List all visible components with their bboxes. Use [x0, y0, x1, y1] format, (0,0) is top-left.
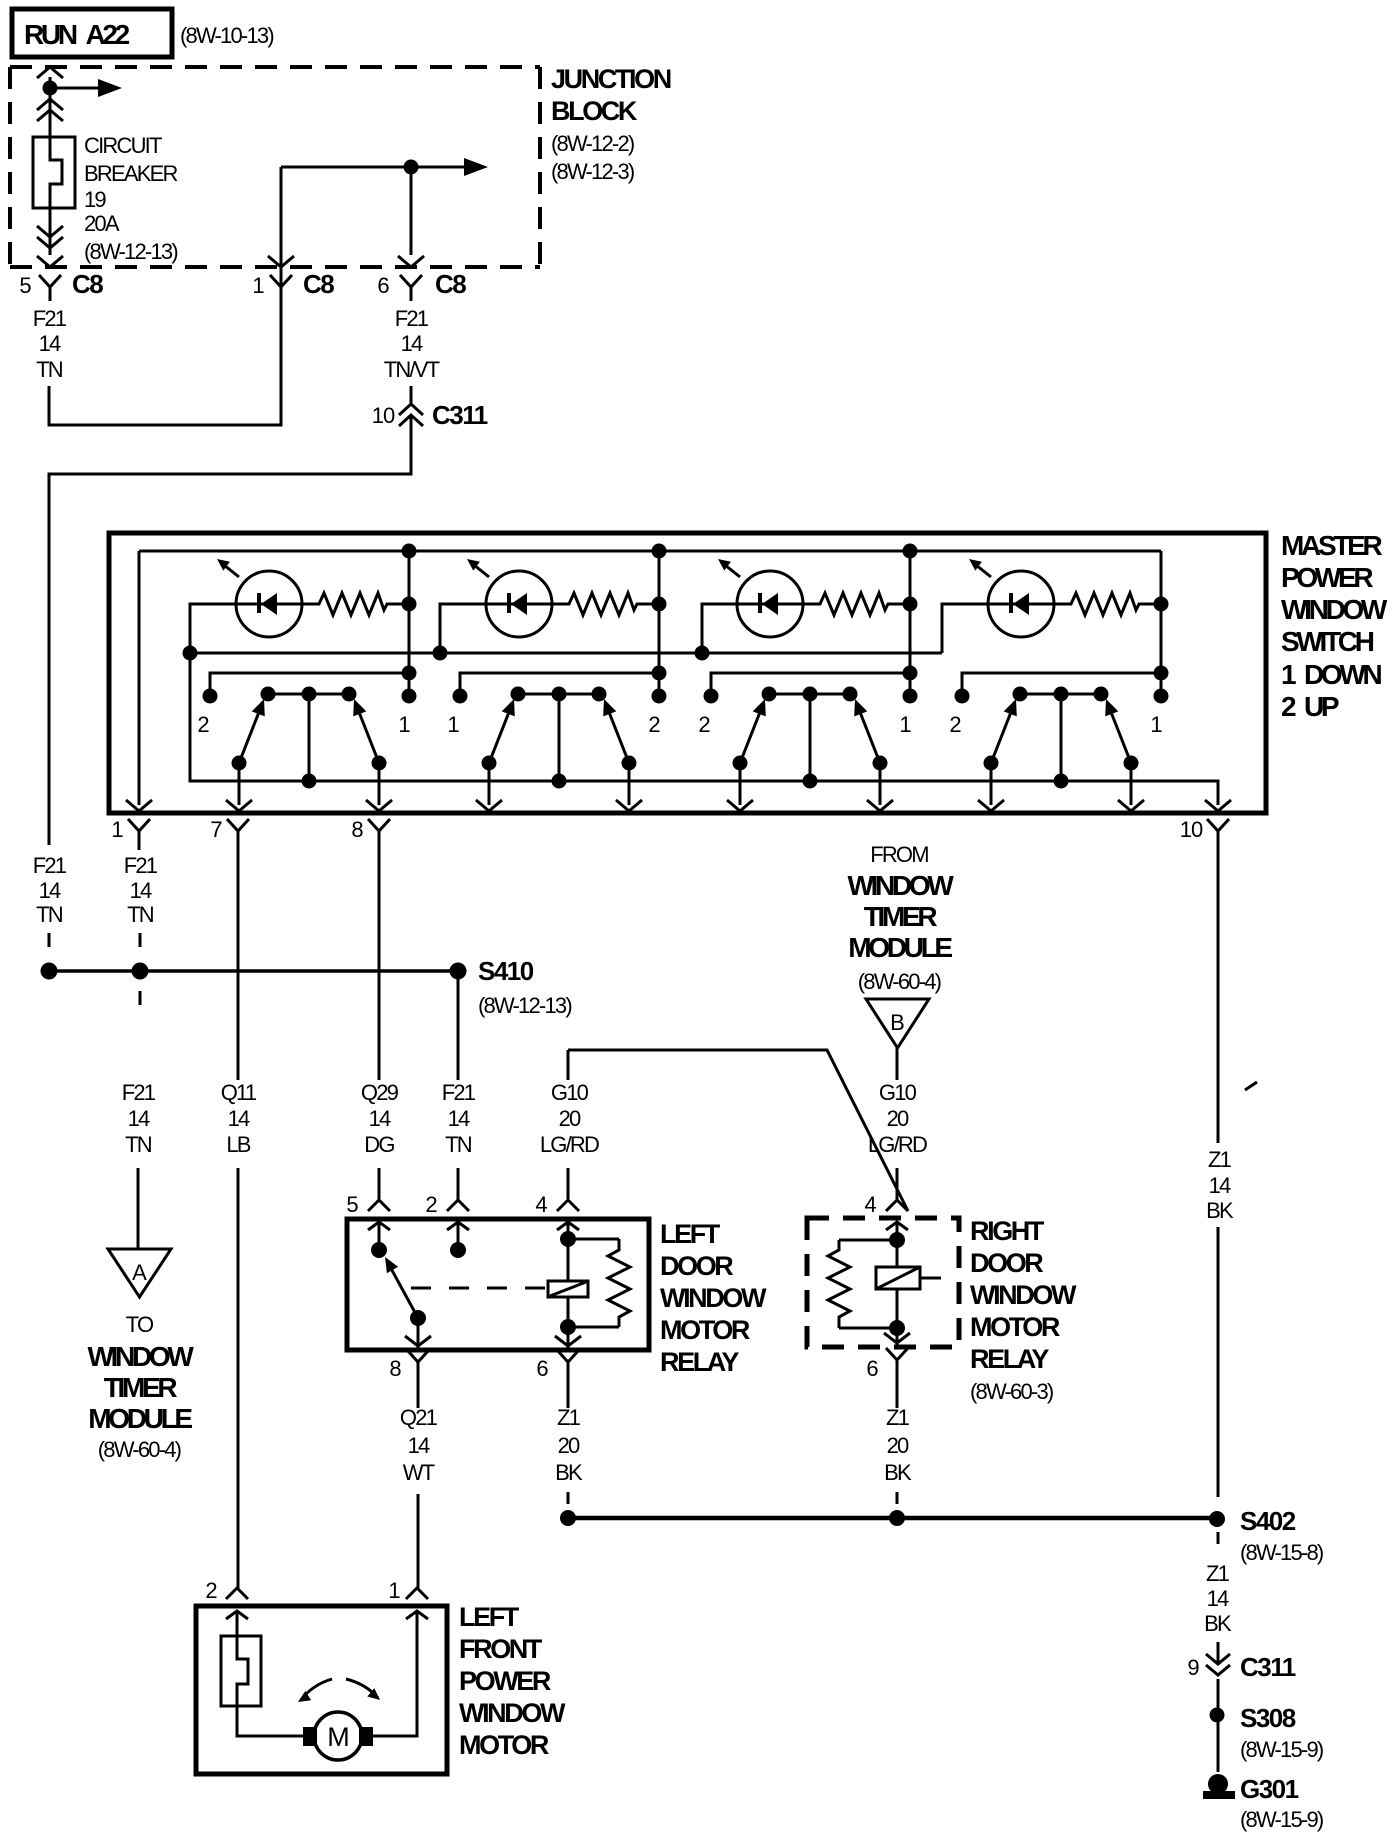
- svg-text:C8: C8: [435, 269, 466, 299]
- switch unit 3 lamp arrow: [725, 565, 740, 577]
- left front power window motor box: [196, 1606, 447, 1774]
- switch unit 2 right output wire: [628, 763, 631, 805]
- switch connector pin 8: [368, 819, 390, 831]
- svg-text:TO: TO: [126, 1312, 154, 1337]
- svg-text:20: 20: [558, 1433, 580, 1458]
- motor M: [314, 1712, 362, 1760]
- wire below circuit breaker: [49, 208, 52, 255]
- svg-text:BK: BK: [884, 1460, 912, 1485]
- svg-text:14: 14: [39, 878, 61, 903]
- svg-text:20: 20: [887, 1433, 909, 1458]
- svg-text:BK: BK: [1204, 1611, 1232, 1636]
- switch unit 2 lamp diode: [507, 593, 511, 613]
- svg-text:DOOR: DOOR: [970, 1248, 1043, 1278]
- switch supply bus: [139, 550, 1161, 553]
- svg-text:14: 14: [1209, 1173, 1231, 1198]
- left relay connector pin 5: [368, 1200, 390, 1211]
- svg-text:MODULE: MODULE: [848, 932, 952, 963]
- arrow up at junction block border: [37, 67, 63, 78]
- svg-text:8: 8: [351, 817, 363, 842]
- svg-text:(8W-60-4): (8W-60-4): [98, 1437, 181, 1462]
- dashed wire below middle splice: [139, 991, 142, 1005]
- switch unit 3 right output wire: [879, 763, 882, 805]
- wire down to C8 pin 6: [410, 167, 413, 255]
- feed arrow right: [50, 87, 102, 90]
- switch unit 2 rocker common wire: [558, 694, 561, 781]
- svg-text:C8: C8: [303, 269, 334, 299]
- svg-text:BREAKER: BREAKER: [84, 161, 177, 186]
- arrow down at border pin 6: [398, 256, 424, 267]
- switch unit 3 illumination bus node: [695, 646, 710, 661]
- ground G301: [1208, 1774, 1228, 1794]
- switch unit 1 stub node: [402, 666, 417, 681]
- switch illumination bus: [190, 652, 942, 655]
- junction block border: [10, 65, 540, 69]
- wire Z1 down to splice S402: [1217, 1227, 1220, 1497]
- svg-text:2: 2: [197, 712, 209, 737]
- motor connector pin 2: [226, 1588, 248, 1599]
- svg-text:(8W-12-3): (8W-12-3): [551, 159, 634, 184]
- svg-text:WINDOW: WINDOW: [660, 1283, 767, 1313]
- svg-text:JUNCTION: JUNCTION: [551, 64, 671, 94]
- wire Z1 to C311 pin 9: [1217, 1642, 1220, 1664]
- switch unit 2 illumination lamp: [486, 571, 552, 637]
- svg-text:F21: F21: [124, 853, 158, 878]
- wire G10 below connector B: [896, 1048, 899, 1080]
- svg-text:MOTOR: MOTOR: [660, 1315, 750, 1345]
- svg-text:RELAY: RELAY: [660, 1347, 739, 1377]
- circuit breaker 19 20A: [33, 137, 75, 208]
- svg-text:2: 2: [698, 712, 710, 737]
- dashed wire to splice S410 left: [48, 933, 51, 947]
- svg-text:RELAY: RELAY: [970, 1344, 1049, 1374]
- switch unit 1 right wiper: [357, 707, 379, 763]
- wire Q21 from relay pin 8: [417, 1376, 420, 1408]
- svg-text:BK: BK: [1206, 1198, 1234, 1223]
- switch unit 1 left output wire: [238, 763, 241, 805]
- switch unit 2 supply node: [652, 544, 667, 559]
- svg-text:(8W-15-9): (8W-15-9): [1240, 1807, 1323, 1832]
- svg-text:Q11: Q11: [221, 1080, 257, 1105]
- switch unit 2 resistor node: [652, 597, 667, 612]
- wire Z1 from right relay pin 6: [896, 1374, 899, 1408]
- svg-text:S402: S402: [1240, 1506, 1296, 1536]
- svg-text:6: 6: [536, 1356, 548, 1381]
- svg-text:WINDOW: WINDOW: [459, 1698, 566, 1728]
- splice S410: [450, 963, 467, 980]
- switch unit 4 lamp arrow: [976, 565, 991, 577]
- svg-text:14: 14: [369, 1106, 391, 1131]
- svg-text:FRONT: FRONT: [459, 1634, 543, 1664]
- svg-text:LB: LB: [226, 1132, 250, 1157]
- svg-text:DG: DG: [364, 1132, 394, 1157]
- svg-text:TN: TN: [36, 902, 63, 927]
- svg-text:F21: F21: [395, 306, 429, 331]
- switch unit 1 rocker contacts: [268, 693, 349, 696]
- fuse block label RUN A22: [12, 9, 172, 57]
- svg-text:WT: WT: [403, 1460, 435, 1485]
- wire Z1 from pin 10: [1217, 845, 1220, 1143]
- svg-text:7: 7: [210, 817, 222, 842]
- switch unit 3 rocker common wire: [809, 694, 812, 781]
- svg-text:F21: F21: [442, 1080, 476, 1105]
- svg-text:RUN A22: RUN A22: [24, 19, 130, 50]
- svg-text:POWER: POWER: [459, 1666, 551, 1696]
- switch unit 4 right contact: [1154, 689, 1169, 704]
- svg-text:6: 6: [866, 1356, 878, 1381]
- svg-text:F21: F21: [122, 1080, 156, 1105]
- svg-text:2 UP: 2 UP: [1281, 691, 1339, 722]
- svg-text:TN: TN: [445, 1132, 472, 1157]
- ground splice node right: [889, 1510, 905, 1526]
- connector C8 pin 6: [400, 275, 422, 287]
- dashed wire below S402: [1217, 1532, 1220, 1548]
- left relay pin 5 entry: [368, 1222, 390, 1230]
- right relay connector pin 6: [886, 1348, 908, 1360]
- junction block internal wire to pin 6: [281, 166, 411, 169]
- switch unit 1 lamp arrow: [224, 565, 239, 577]
- svg-text:Z1: Z1: [886, 1405, 910, 1430]
- ground splice bus wire: [568, 1516, 1217, 1521]
- wire Q29 from pin 8: [378, 845, 381, 1080]
- wire F21 to window timer module: [137, 1168, 140, 1249]
- switch unit 2 lamp return wire: [440, 604, 486, 653]
- svg-text:Z1: Z1: [1208, 1147, 1232, 1172]
- switch unit 3 left wiper: [740, 707, 762, 763]
- svg-text:G10: G10: [551, 1080, 589, 1105]
- right relay resistor: [839, 1239, 897, 1242]
- svg-text:14: 14: [128, 1106, 150, 1131]
- switch unit 1 left wiper: [239, 707, 261, 763]
- switch unit 3 lamp return wire: [702, 604, 737, 653]
- window timer module connector A: [108, 1249, 171, 1297]
- svg-text:TN: TN: [127, 902, 154, 927]
- svg-text:14: 14: [1207, 1586, 1229, 1611]
- left relay connector pin 4: [557, 1200, 579, 1211]
- right relay coil bottom node: [889, 1320, 905, 1336]
- svg-text:2: 2: [949, 712, 961, 737]
- wire TN/VT from C311 down-left: [49, 432, 411, 845]
- stray mark: [1245, 1082, 1257, 1090]
- svg-text:9: 9: [1187, 1655, 1199, 1680]
- switch unit 4 right wiper: [1109, 707, 1131, 763]
- switch unit 3 resistor: [803, 593, 910, 615]
- svg-text:LEFT: LEFT: [660, 1219, 721, 1249]
- svg-text:F21: F21: [33, 853, 67, 878]
- switch unit 4 lamp return wire: [942, 604, 988, 653]
- switch unit 2 lamp arrow: [474, 565, 489, 577]
- svg-text:(8W-12-2): (8W-12-2): [551, 131, 634, 156]
- connector chevrons below circuit breaker: [37, 226, 63, 237]
- left relay pin 8 exit: [417, 1318, 420, 1348]
- svg-text:5: 5: [346, 1192, 358, 1217]
- feed arrow right from pin 6 node: [411, 166, 468, 169]
- switch unit 4 resistor: [1054, 593, 1161, 615]
- svg-text:1: 1: [388, 1578, 400, 1603]
- svg-text:B: B: [890, 1010, 904, 1035]
- switch unit 4 left wiper: [991, 707, 1013, 763]
- svg-text:Z1: Z1: [1206, 1561, 1230, 1586]
- svg-text:C8: C8: [72, 269, 103, 299]
- switch unit 2 illumination bus node: [433, 646, 448, 661]
- right relay pin 6 exit: [896, 1328, 899, 1345]
- connector chevrons above circuit breaker: [37, 99, 63, 110]
- svg-text:(8W-12-13): (8W-12-13): [84, 239, 177, 264]
- svg-text:4: 4: [535, 1192, 547, 1217]
- svg-text:6: 6: [377, 273, 389, 298]
- svg-text:14: 14: [408, 1433, 430, 1458]
- svg-text:TN: TN: [36, 357, 63, 382]
- svg-text:RIGHT: RIGHT: [970, 1216, 1045, 1246]
- right door window motor relay box: [807, 1218, 959, 1347]
- window timer module connector B: [866, 999, 929, 1048]
- switch unit 3 left output wire: [739, 763, 742, 805]
- dashed wire to splice S410 middle: [139, 933, 142, 947]
- arrow down at junction block border pin 5: [37, 256, 63, 267]
- wire from C8 pin 5 to C8 pin 1: [49, 167, 281, 425]
- svg-text:DOOR: DOOR: [660, 1251, 733, 1281]
- switch unit 2 right contact: [652, 689, 667, 704]
- left relay switch arm: [388, 1263, 418, 1318]
- svg-text:1: 1: [1150, 712, 1162, 737]
- switch unit 3 supply node: [903, 544, 918, 559]
- switch unit 1 lamp diode: [257, 593, 261, 613]
- svg-text:TN: TN: [125, 1132, 152, 1157]
- connector C8 pin 5: [39, 275, 61, 287]
- right relay coil stub: [920, 1277, 941, 1280]
- svg-text:WINDOW: WINDOW: [87, 1341, 194, 1372]
- svg-text:C311: C311: [432, 400, 488, 430]
- switch unit 4 stub node: [1154, 666, 1169, 681]
- left relay pin 2 terminal: [450, 1242, 466, 1258]
- connector C311 pin 9: [1206, 1654, 1230, 1664]
- switch unit 3 illumination lamp: [737, 571, 803, 637]
- motor circuit breaker: [221, 1636, 261, 1706]
- switch unit 3 right wiper: [858, 707, 880, 763]
- motor pin 1 wire: [373, 1611, 417, 1736]
- svg-text:4: 4: [864, 1192, 876, 1217]
- svg-text:C311: C311: [1240, 1652, 1296, 1682]
- switch connector pin 10: [1207, 819, 1229, 831]
- svg-text:S308: S308: [1240, 1703, 1296, 1733]
- svg-text:LG/RD: LG/RD: [868, 1132, 927, 1157]
- switch unit 2 right wiper: [607, 707, 629, 763]
- switch unit 1 resistor node: [402, 597, 417, 612]
- svg-text:2: 2: [648, 712, 660, 737]
- motor rotation arrows: [301, 1679, 332, 1700]
- wire G10 20 LG/RD labels left: [567, 1050, 570, 1080]
- switch unit 2 stub node: [652, 666, 667, 681]
- switch unit 1 illumination lamp: [236, 571, 302, 637]
- switch unit 1 rocker common wire: [308, 694, 311, 781]
- svg-text:10: 10: [1180, 817, 1203, 842]
- switch unit 1 left contact: [203, 689, 218, 704]
- dashed wire to ground splice right: [896, 1492, 899, 1506]
- svg-text:1 DOWN: 1 DOWN: [1281, 659, 1382, 690]
- switch unit 2 resistor: [552, 593, 659, 615]
- node at breaker feed: [43, 81, 58, 96]
- switch unit 1 resistor: [302, 593, 409, 615]
- switch unit 3 lamp diode: [758, 593, 762, 613]
- svg-text:1: 1: [398, 712, 410, 737]
- switch unit 4 left output wire: [990, 763, 993, 805]
- svg-text:M: M: [327, 1722, 349, 1752]
- splice S308: [1210, 1708, 1225, 1723]
- svg-text:BLOCK: BLOCK: [551, 96, 638, 126]
- svg-text:S410: S410: [478, 956, 534, 986]
- left relay coil: [548, 1281, 588, 1297]
- svg-text:G10: G10: [879, 1080, 917, 1105]
- svg-text:2: 2: [425, 1192, 437, 1217]
- svg-text:WINDOW: WINDOW: [847, 870, 954, 901]
- wire Q11 down to motor: [237, 1168, 240, 1588]
- switch unit 1 supply node: [402, 544, 417, 559]
- svg-text:MOTOR: MOTOR: [970, 1312, 1060, 1342]
- left relay coil top node: [560, 1231, 576, 1247]
- left relay coil wires: [567, 1239, 570, 1281]
- left relay connector pin 8: [407, 1350, 429, 1362]
- splice S402: [1209, 1511, 1225, 1527]
- connector C8 pin 1: [270, 275, 292, 287]
- left relay coil bottom node: [560, 1319, 576, 1335]
- wire Q29 down to relay pin 5: [378, 1168, 381, 1200]
- switch connector pin 1: [128, 819, 150, 831]
- svg-text:Q29: Q29: [361, 1080, 399, 1105]
- svg-text:F21: F21: [33, 306, 67, 331]
- wire F21 below S410: [457, 979, 460, 1080]
- wire Q21 down to motor pin 1: [417, 1494, 420, 1588]
- wire Z1 to splice S308: [1217, 1702, 1220, 1708]
- left relay pin 4 entry: [557, 1222, 579, 1230]
- switch unit 4 rocker contacts: [1020, 693, 1101, 696]
- svg-text:20A: 20A: [84, 211, 120, 236]
- svg-text:MOTOR: MOTOR: [459, 1730, 549, 1760]
- left relay pin 6 exit: [567, 1327, 570, 1348]
- switch unit 1 right contact: [402, 689, 417, 704]
- switch unit 4 resistor node: [1154, 597, 1169, 612]
- svg-text:20: 20: [887, 1106, 909, 1131]
- switch unit 4 illumination lamp: [988, 571, 1054, 637]
- svg-text:1: 1: [899, 712, 911, 737]
- svg-text:LEFT: LEFT: [459, 1602, 520, 1632]
- left relay resistor: [568, 1238, 619, 1241]
- switch unit 2 rocker contacts: [518, 693, 599, 696]
- switch unit 1 lamp return wire: [190, 604, 236, 653]
- switch unit 2 contact stub: [460, 673, 659, 690]
- node at pin 6 feed: [404, 160, 419, 175]
- svg-text:LG/RD: LG/RD: [540, 1132, 599, 1157]
- motor right terminal: [359, 1727, 373, 1746]
- svg-text:TN/VT: TN/VT: [384, 357, 440, 382]
- splice node left: [41, 963, 58, 980]
- svg-text:(8W-15-8): (8W-15-8): [1240, 1540, 1323, 1565]
- right relay pin 4 entry: [886, 1222, 908, 1230]
- svg-text:POWER: POWER: [1281, 562, 1373, 593]
- illumination bus node: [183, 646, 198, 661]
- svg-text:1: 1: [111, 817, 123, 842]
- motor connector pin 1: [406, 1588, 428, 1599]
- switch unit 2 left wiper: [489, 707, 511, 763]
- splice node middle: [132, 963, 149, 980]
- switch unit 4 rocker common wire: [1060, 694, 1063, 781]
- svg-text:(8W-12-13): (8W-12-13): [478, 993, 571, 1018]
- ground splice node left: [560, 1510, 576, 1526]
- switch unit 1 right output wire: [378, 763, 381, 805]
- switch unit 3 stub node: [903, 666, 918, 681]
- svg-text:14: 14: [228, 1106, 250, 1131]
- left relay connector pin 6: [557, 1350, 579, 1362]
- svg-text:CIRCUIT: CIRCUIT: [84, 133, 162, 158]
- svg-text:14: 14: [448, 1106, 470, 1131]
- svg-text:14: 14: [130, 878, 152, 903]
- svg-text:A: A: [132, 1260, 147, 1285]
- svg-text:(8W-10-13): (8W-10-13): [180, 23, 273, 48]
- svg-text:TIMER: TIMER: [864, 901, 938, 932]
- switch unit 2 feed wire: [658, 551, 661, 696]
- wire Z1 to ground G301: [1217, 1722, 1220, 1772]
- switch unit 3 left contact: [704, 689, 719, 704]
- switch connector pin 7: [227, 819, 249, 831]
- svg-text:2: 2: [205, 1578, 217, 1603]
- switch ground bus to pin 10: [190, 653, 1218, 805]
- switch unit 4 feed wire: [1160, 551, 1163, 696]
- svg-text:(8W-60-4): (8W-60-4): [858, 969, 941, 994]
- switch unit 3 resistor node: [903, 597, 918, 612]
- motor left terminal: [303, 1727, 317, 1746]
- svg-text:SWITCH: SWITCH: [1281, 626, 1374, 657]
- svg-text:Q21: Q21: [400, 1405, 438, 1430]
- switch unit 3 rocker contacts: [769, 693, 850, 696]
- svg-text:8: 8: [389, 1356, 401, 1381]
- switch unit 4 contact stub: [962, 673, 1161, 690]
- wire G10 down to relay pin 4: [567, 1168, 570, 1200]
- svg-text:TIMER: TIMER: [104, 1372, 178, 1403]
- switch unit 1 feed wire: [408, 551, 411, 696]
- wire Q11 from pin 7: [237, 845, 240, 1080]
- switch feed wire pin 1: [138, 551, 141, 805]
- svg-text:(8W-60-3): (8W-60-3): [970, 1379, 1053, 1404]
- switch unit 4 left contact: [955, 689, 970, 704]
- svg-text:20: 20: [559, 1106, 581, 1131]
- svg-text:WINDOW: WINDOW: [970, 1280, 1077, 1310]
- switch unit 3 contact stub: [711, 673, 910, 690]
- right relay coil wires: [896, 1240, 899, 1267]
- switch unit 3 feed wire: [909, 551, 912, 696]
- svg-text:BK: BK: [555, 1460, 583, 1485]
- dashed wire to ground splice left: [567, 1492, 570, 1506]
- motor pin 2 entry: [226, 1611, 248, 1619]
- svg-text:19: 19: [84, 187, 106, 212]
- switch unit 1 contact stub: [210, 673, 409, 690]
- wire F21 down to relay pin 2: [457, 1168, 460, 1200]
- svg-text:14: 14: [39, 331, 61, 356]
- right relay connector pin 4: [886, 1200, 908, 1211]
- right relay coil: [876, 1267, 920, 1289]
- switch unit 3 right contact: [903, 689, 918, 704]
- wire G10 down to right relay pin 4: [896, 1168, 899, 1200]
- svg-text:5: 5: [19, 273, 31, 298]
- splice S410 wire: [49, 969, 458, 973]
- left relay actuation dashed link: [411, 1287, 546, 1290]
- master power window switch box: [109, 533, 1266, 813]
- switch unit 2 left output wire: [488, 763, 491, 805]
- svg-text:1: 1: [447, 712, 459, 737]
- switch unit 4 lamp diode: [1009, 593, 1013, 613]
- left relay pin 2 entry: [447, 1222, 469, 1230]
- svg-text:(8W-15-9): (8W-15-9): [1240, 1737, 1323, 1762]
- left relay connector pin 2: [447, 1200, 469, 1211]
- wire Z1 from left relay pin 6: [567, 1376, 570, 1408]
